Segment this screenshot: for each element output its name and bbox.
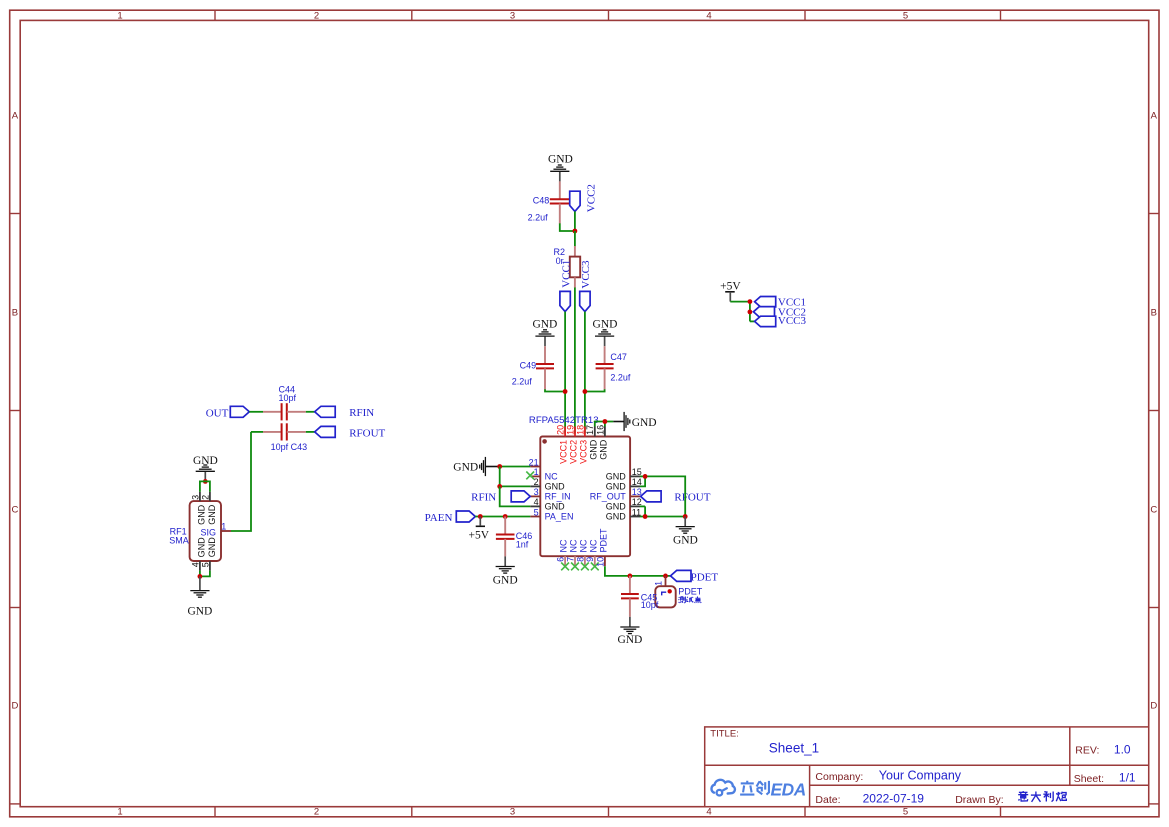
svg-text:GND: GND	[617, 634, 642, 646]
wire pins 17,16 to GND	[595, 422, 614, 427]
svg-text:A: A	[1151, 111, 1158, 122]
IC U1 bottom pin 9 (NC)	[585, 539, 599, 570]
svg-text:GND: GND	[493, 575, 518, 587]
drawn-by name 意大利炮	[1018, 791, 1066, 802]
ground symbol (above C47)	[595, 330, 614, 346]
svg-text:GND: GND	[673, 535, 698, 547]
port PDET	[671, 570, 719, 583]
net flag VCC1 (above pin 20)	[560, 260, 573, 312]
capacitor C43 (with wires)	[251, 423, 315, 440]
RF1 top pin 3 (GND)	[190, 492, 206, 525]
RF1 bottom pin 4 (GND)	[190, 537, 206, 571]
port RFOUT (at IC pin 13)	[641, 491, 711, 504]
svg-text:C: C	[1150, 505, 1157, 516]
svg-text:EDA: EDA	[771, 779, 806, 799]
svg-text:RF_IN: RF_IN	[545, 492, 571, 502]
wire pins 15,14	[640, 476, 645, 486]
IC U1 part name RFPA5542TR13	[529, 415, 599, 426]
svg-text:C48: C48	[533, 195, 550, 205]
svg-text:GND: GND	[606, 472, 627, 482]
title block texts	[710, 729, 1136, 807]
IC U1 bottom pin 7 (NC)	[565, 539, 579, 570]
net label GND (below C46)	[493, 575, 518, 587]
junction (C45 tap)	[628, 574, 633, 579]
RF1 bottom pin 5 (GND)	[200, 537, 217, 571]
svg-text:4: 4	[534, 497, 539, 507]
svg-text:REV:: REV:	[1075, 744, 1099, 756]
capacitor C45	[621, 576, 659, 617]
svg-text:GND: GND	[197, 504, 207, 525]
svg-text:B: B	[12, 308, 18, 319]
svg-text:NC: NC	[559, 539, 569, 552]
junction (GND branch bottom right)	[683, 514, 688, 519]
port OUT	[206, 406, 250, 419]
IC U1 top pin 18 (VCC3)	[575, 425, 588, 464]
wire PAEN to pin 5	[475, 516, 530, 518]
svg-text:1: 1	[221, 521, 226, 531]
port RFIN (right of C44)	[315, 406, 375, 419]
wire pins 12,11	[640, 506, 645, 516]
svg-text:PDET: PDET	[691, 572, 719, 584]
svg-text:5: 5	[903, 10, 908, 21]
svg-text:B: B	[1151, 308, 1157, 319]
svg-text:GND: GND	[453, 461, 478, 473]
net label GND (above C47)	[593, 319, 618, 331]
IC U1 bottom pin 6 (NC)	[556, 539, 570, 570]
junction (RF1 bottom GND)	[198, 574, 203, 579]
svg-text:GND: GND	[598, 439, 608, 460]
junction (pin16/GND wire)	[603, 419, 608, 424]
wire GND to pin 21	[500, 466, 531, 468]
IC U1 left pin 3 (RF_IN)	[530, 487, 570, 501]
svg-text:3: 3	[510, 807, 515, 818]
svg-text:2022-07-19: 2022-07-19	[863, 791, 925, 805]
svg-text:20: 20	[556, 425, 566, 435]
test point TP labels PDET / 测试点	[678, 587, 703, 603]
svg-text:NC: NC	[578, 539, 588, 552]
wire C47 to VCC3 net	[585, 389, 605, 391]
net label GND (below RF1)	[187, 606, 212, 618]
svg-text:5: 5	[200, 562, 210, 567]
svg-text:2: 2	[314, 807, 319, 818]
svg-text:GND: GND	[207, 537, 217, 558]
svg-text:C49: C49	[520, 361, 537, 371]
junction (RF1 top GND)	[203, 479, 208, 484]
net label GND (above C49)	[532, 319, 557, 331]
svg-text:5: 5	[534, 507, 539, 517]
resistor R2	[553, 246, 580, 288]
capacitor C47	[596, 346, 631, 389]
svg-text:VCC2: VCC2	[585, 184, 597, 212]
wire pin 11 to GND branch	[645, 516, 685, 518]
svg-text:2: 2	[534, 477, 539, 487]
svg-text:SIG: SIG	[201, 528, 217, 538]
svg-text:1nf: 1nf	[516, 539, 529, 549]
IC U1 right pin 12 (GND)	[606, 497, 642, 511]
wire pin 15 to GND branch	[645, 476, 685, 516]
test point TP body	[653, 576, 675, 608]
svg-text:C: C	[11, 505, 18, 516]
svg-text:VCC3: VCC3	[778, 315, 807, 327]
wire GND chain down to pin 2	[500, 467, 531, 487]
svg-text:2.2uf: 2.2uf	[610, 372, 631, 382]
wire VCC1 to IC pin 20	[564, 312, 566, 434]
port RFIN (to IC pin 3)	[471, 491, 530, 504]
capacitor C48	[528, 181, 570, 223]
net label GND (right of pin 16)	[632, 417, 657, 429]
svg-text:RFIN: RFIN	[349, 407, 374, 419]
svg-text:GND: GND	[545, 482, 566, 492]
svg-text:OUT: OUT	[206, 407, 229, 419]
IC U1 top pin 19 (VCC2)	[565, 425, 578, 464]
port PAEN	[425, 511, 476, 524]
junction (+5V/VCC1)	[748, 299, 753, 304]
IC U1 left pin 2 (GND)	[530, 477, 565, 491]
ground symbol (above RF1)	[196, 465, 215, 481]
junction (C49 on VCC1 wire)	[563, 389, 568, 394]
net label GND (above RF1)	[193, 455, 218, 467]
net flag VCC2 (right)	[753, 306, 806, 318]
svg-text:4: 4	[190, 562, 200, 567]
svg-text:10pf: 10pf	[279, 393, 297, 403]
svg-text:GND: GND	[632, 417, 657, 429]
ground symbol (below RF1)	[190, 576, 209, 597]
power symbol +5V (right)	[720, 281, 741, 302]
ground symbol (below C45)	[620, 617, 639, 634]
ground symbol (below pin 11 wire)	[676, 517, 695, 534]
IC U1 bottom pin 8 (NC)	[575, 539, 589, 570]
svg-text:GND: GND	[548, 154, 573, 166]
IC U1 right pin 14 (GND)	[606, 477, 642, 491]
ground symbol (below C46)	[496, 556, 515, 573]
svg-text:Company:: Company:	[815, 771, 863, 783]
junction (GND chain at pin 2 row)	[497, 484, 502, 489]
svg-text:D: D	[1150, 701, 1157, 712]
svg-text:GND: GND	[197, 537, 207, 558]
wire VCC3 to IC pin 18	[584, 312, 586, 434]
svg-text:GND: GND	[606, 502, 627, 512]
capacitor C49	[512, 346, 554, 389]
ground symbol (right of pin 16)	[613, 412, 630, 431]
svg-text:NC: NC	[588, 539, 598, 552]
svg-text:GND: GND	[606, 482, 627, 492]
IC U1 right pin 11 (GND)	[606, 507, 641, 521]
svg-text:GND: GND	[545, 502, 566, 512]
junction (C48/VCC2/R2)	[573, 229, 578, 234]
IC U1 top pin 20 (VCC1)	[556, 425, 569, 464]
wire junction to R2	[574, 231, 576, 247]
net label GND (left of pin 21)	[453, 461, 478, 473]
svg-text:1: 1	[117, 807, 122, 818]
net flag VCC3 (right)	[755, 315, 807, 327]
svg-text:2.2uf: 2.2uf	[512, 377, 533, 387]
port RFOUT (right of C43)	[315, 426, 386, 439]
junction (C46 tap)	[503, 514, 508, 519]
svg-text:PDET: PDET	[678, 587, 703, 597]
svg-text:NC: NC	[569, 539, 579, 552]
net label GND (top, above C48)	[548, 154, 573, 166]
wire VCC2 flag to junction	[574, 211, 576, 231]
svg-text:10pf: 10pf	[641, 600, 659, 610]
junction (+5V/VCC2)	[748, 310, 753, 315]
svg-text:2: 2	[314, 10, 319, 21]
IC U1 top pin 17 (GND)	[585, 425, 598, 460]
svg-text:10pf C43: 10pf C43	[271, 442, 308, 452]
capacitor C46	[496, 517, 532, 557]
svg-text:3: 3	[510, 10, 515, 21]
IC U1 right pin 15 (GND)	[606, 467, 642, 481]
svg-text:RFPA5542TR13: RFPA5542TR13	[529, 415, 599, 426]
svg-text:D: D	[11, 701, 18, 712]
svg-text:1.0: 1.0	[1114, 742, 1131, 756]
ground symbol (above C49)	[535, 330, 554, 346]
svg-text:PAEN: PAEN	[425, 512, 453, 524]
svg-text:1: 1	[117, 10, 122, 21]
svg-text:18: 18	[575, 425, 585, 435]
svg-text:9: 9	[585, 557, 595, 562]
junction (pin 11)	[643, 514, 648, 519]
svg-text:NC: NC	[545, 472, 558, 482]
capacitor C44 labels	[279, 384, 297, 403]
connector RF1 SMA body	[190, 501, 221, 561]
svg-text:GND: GND	[606, 512, 627, 522]
svg-text:VCC3: VCC3	[578, 440, 588, 464]
svg-text:3: 3	[534, 487, 539, 497]
svg-text:GND: GND	[207, 504, 217, 525]
junction (GND/pin21 chain)	[497, 464, 502, 469]
svg-text:+5V: +5V	[469, 529, 490, 541]
wire +5V to flags	[730, 302, 754, 322]
wire GND chain down to pin 4	[500, 486, 531, 506]
junction (C47 on VCC3 wire)	[583, 389, 588, 394]
svg-text:VCC3: VCC3	[580, 260, 592, 289]
IC U1 left pin 21	[529, 457, 541, 467]
svg-text:RFOUT: RFOUT	[349, 427, 385, 439]
svg-text:VCC1: VCC1	[559, 440, 569, 464]
svg-text:GND: GND	[532, 319, 557, 331]
IC U1 left pin 1 (NC)	[526, 467, 558, 481]
net flag VCC2	[570, 184, 598, 212]
svg-text:A: A	[12, 111, 19, 122]
svg-text:GND: GND	[187, 606, 212, 618]
svg-text:11: 11	[632, 507, 641, 517]
net flag VCC1 (right)	[755, 296, 806, 308]
svg-text:VCC1: VCC1	[560, 260, 572, 288]
svg-text:TITLE:: TITLE:	[710, 729, 739, 740]
svg-text:SMA: SMA	[169, 535, 189, 545]
IC U1 right pin 13 (RF_OUT)	[590, 487, 642, 501]
wires RF1 pins 4,5 to GND	[200, 571, 210, 577]
svg-text:5: 5	[903, 807, 908, 818]
IC U1 left pin 5 (PA_EN)	[530, 507, 573, 521]
svg-text:7: 7	[565, 557, 575, 562]
RF1 top pin 2 (GND)	[200, 492, 217, 525]
svg-text:19: 19	[565, 425, 575, 435]
net label GND (below C45)	[617, 634, 642, 646]
capacitor C43 labels	[271, 442, 308, 452]
junction (TP1 tap)	[663, 574, 668, 579]
svg-text:Date:: Date:	[815, 794, 840, 806]
svg-text:PA_EN: PA_EN	[545, 512, 574, 522]
svg-text:GND: GND	[593, 319, 618, 331]
IC U1 bottom pin 10 (PDET)	[595, 528, 608, 567]
svg-text:4: 4	[706, 807, 711, 818]
svg-text:1/1: 1/1	[1119, 771, 1136, 785]
junction (PAEN/+5V)	[478, 514, 483, 519]
RF1 pin 1 (SIG)	[201, 521, 232, 537]
svg-text:2: 2	[200, 495, 210, 500]
power symbol +5V (below PAEN wire)	[469, 517, 490, 542]
svg-text:Sheet_1: Sheet_1	[769, 741, 819, 756]
svg-text:+5V: +5V	[720, 281, 741, 293]
capacitor C44 (with wires)	[249, 403, 314, 420]
net flag VCC3 (above pin 18)	[580, 260, 592, 312]
svg-text:GND: GND	[588, 439, 598, 460]
wire SMA pin1 to C43	[231, 432, 251, 531]
svg-text:Sheet:: Sheet:	[1074, 773, 1104, 785]
wire R2 to IC pin 19	[574, 288, 576, 434]
svg-text:16: 16	[595, 425, 605, 435]
op-amp / IC U1 RFPA5542TR13 body	[540, 437, 630, 557]
IC U1 top pin 16 (GND)	[595, 425, 608, 460]
svg-text:C47: C47	[610, 352, 627, 362]
svg-text:1: 1	[653, 581, 663, 586]
svg-text:RFIN: RFIN	[471, 491, 496, 503]
wire C48 to VCC2 junction	[560, 223, 575, 231]
RF1 labels RF1 / SMA	[169, 526, 189, 545]
IC U1 left pin 4 (GND)	[530, 497, 565, 511]
title block	[705, 727, 1149, 807]
svg-text:RF_OUT: RF_OUT	[590, 492, 627, 502]
svg-text:10: 10	[595, 557, 605, 567]
ground symbol (left of pin 21)	[480, 457, 500, 476]
svg-text:2.2uf: 2.2uf	[528, 213, 549, 223]
EasyEDA logo	[711, 779, 805, 799]
svg-text:VCC2: VCC2	[569, 440, 579, 464]
wire C49 to VCC1 net	[545, 389, 565, 391]
svg-text:PDET: PDET	[598, 528, 608, 553]
net label GND (below pin 11 wire)	[673, 535, 698, 547]
svg-text:8: 8	[575, 557, 585, 562]
wire pin 10 to PDET port	[605, 566, 671, 576]
svg-text:Drawn By:: Drawn By:	[955, 794, 1003, 806]
svg-text:Your Company: Your Company	[879, 769, 962, 783]
svg-text:6: 6	[556, 557, 566, 562]
junction (pin 15)	[643, 474, 648, 479]
wires GND to RF1 pins 3,2	[200, 481, 210, 492]
svg-text:4: 4	[706, 10, 711, 21]
svg-text:RFOUT: RFOUT	[674, 492, 710, 504]
svg-text:3: 3	[190, 495, 200, 500]
svg-text:17: 17	[585, 425, 595, 435]
ground symbol (top, above C48)	[550, 165, 569, 181]
